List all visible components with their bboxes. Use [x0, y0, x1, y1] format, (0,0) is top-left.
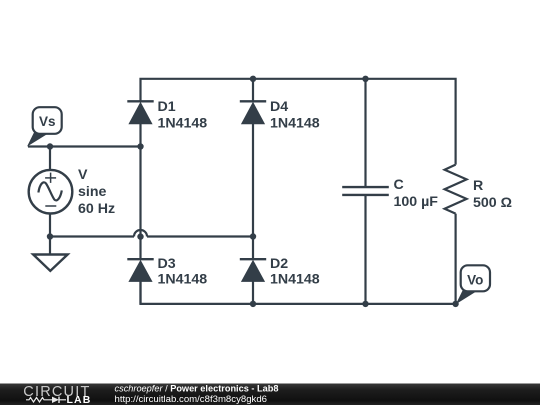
svg-text:cschroepfer / Power electronic: cschroepfer / Power electronics - Lab8 — [115, 384, 279, 394]
svg-text:D4: D4 — [270, 99, 288, 115]
svg-text:1N4148: 1N4148 — [270, 272, 320, 288]
svg-text:D3: D3 — [158, 256, 176, 272]
svg-text:100 µF: 100 µF — [394, 194, 439, 210]
svg-text:LAB: LAB — [67, 394, 92, 405]
wire D1 anode — [139, 124, 141, 147]
node junction top rail / C — [362, 76, 368, 82]
diode D4 — [240, 101, 266, 124]
wire D4 anode column — [252, 124, 254, 237]
wire AC2 left — [50, 235, 134, 237]
svg-text:http://circuitlab.com/c8f3m8cy: http://circuitlab.com/c8f3m8cy8gkd6 — [115, 394, 268, 405]
node junction bottom rail / C — [362, 301, 368, 307]
voltage source V — [29, 170, 73, 214]
wire resistor bottom — [455, 214, 457, 304]
diode D2 — [240, 259, 266, 282]
wire source top — [49, 147, 51, 171]
node Vs junction at D1 — [137, 143, 143, 149]
svg-text:V: V — [78, 167, 88, 183]
svg-text:C: C — [394, 177, 404, 193]
svg-text:1N4148: 1N4148 — [158, 116, 208, 132]
svg-text:1N4148: 1N4148 — [158, 272, 208, 288]
node dot at hop crossing — [137, 233, 143, 239]
wire D2 cathode — [252, 237, 254, 259]
wire hop over D1-D3 column — [134, 230, 147, 236]
wire top rail — [141, 79, 456, 165]
svg-text:R: R — [473, 178, 483, 194]
ground — [33, 255, 67, 271]
wire source bottom — [49, 214, 51, 237]
node Vs junction at source — [47, 143, 53, 149]
node junction AC2 / D4-D2 — [250, 233, 256, 239]
node junction bottom rail / D2 — [250, 301, 256, 307]
node junction top rail / D4 — [250, 76, 256, 82]
wire D1-D3 column — [139, 147, 141, 259]
svg-text:D2: D2 — [270, 256, 288, 272]
svg-text:sine: sine — [78, 184, 106, 200]
node Vo junction bottom rail / R — [452, 301, 458, 307]
wire Vs horizontal — [28, 145, 141, 147]
diode D3 — [127, 259, 153, 282]
wire D2 anode — [252, 281, 254, 304]
wire D4 cathode — [252, 79, 254, 102]
wire capacitor top — [364, 79, 366, 186]
svg-text:Vo: Vo — [467, 272, 483, 287]
flag Vs — [27, 107, 62, 146]
node ground junction — [47, 233, 53, 239]
wire ground stub — [49, 237, 51, 255]
resistor R — [445, 165, 467, 214]
capacitor C — [342, 187, 389, 195]
svg-text:D1: D1 — [158, 99, 176, 115]
diode D1 — [127, 101, 153, 124]
wire AC2 right — [147, 235, 253, 237]
wire capacitor bottom — [364, 196, 366, 304]
wire D3 anode — [139, 281, 141, 304]
wire bottom rail — [141, 281, 456, 304]
svg-text:Vs: Vs — [39, 114, 56, 129]
svg-text:60 Hz: 60 Hz — [78, 201, 115, 217]
svg-text:500 Ω: 500 Ω — [473, 195, 512, 211]
flag Vo — [456, 265, 490, 304]
logo resistor-diode glyph — [26, 398, 66, 403]
svg-text:1N4148: 1N4148 — [270, 116, 320, 132]
